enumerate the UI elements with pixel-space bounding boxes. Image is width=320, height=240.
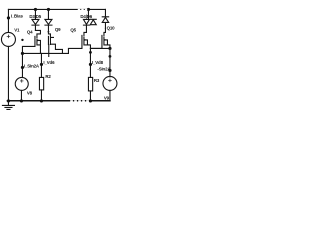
node dot bottom rail at V8 — [20, 99, 23, 102]
resistor R3 — [88, 77, 92, 91]
svg-text:D4|D6: D4|D6 — [80, 14, 92, 19]
wire V1 top branch — [7, 9, 9, 32]
svg-text:I_Vd8: I_Vd8 — [92, 60, 104, 65]
transistor Q4 — [22, 30, 40, 53]
diode D3 — [32, 9, 39, 30]
svg-text:-Sin2A: -Sin2A — [97, 66, 111, 71]
svg-text:V1: V1 — [14, 27, 20, 32]
node I_Vd6 dot — [40, 63, 43, 66]
svg-text:Q9: Q9 — [55, 27, 61, 32]
svg-text:R3: R3 — [94, 78, 100, 83]
transistor Q10 — [90, 28, 110, 48]
voltage source V9 — [103, 76, 117, 90]
wire fade bottom rail — [71, 100, 89, 102]
node I_Vd8 dot — [89, 63, 92, 66]
transistor Q5 — [68, 32, 90, 53]
node I_Bias dot — [7, 16, 10, 19]
wire top rail right corner — [104, 9, 106, 17]
wire R3 bottom — [89, 91, 91, 101]
node dot Q10 source — [108, 47, 111, 50]
svg-text:V8: V8 — [27, 90, 33, 95]
node dot mid-left junction — [21, 52, 24, 55]
node dot top rail D5 — [47, 8, 50, 11]
wire V8 bottom — [20, 90, 22, 100]
transistor Q9 — [48, 25, 62, 56]
diode D5 — [45, 9, 52, 25]
node -Sin2A dot — [108, 69, 111, 72]
svg-text:I_Vd6: I_Vd6 — [43, 60, 55, 65]
svg-text:I_Sin2A: I_Sin2A — [24, 63, 40, 68]
wire Q10 gate tie — [90, 47, 110, 49]
svg-text:D3|D5: D3|D5 — [29, 14, 41, 19]
svg-text:V9: V9 — [104, 95, 110, 100]
node dot top rail D4D6 — [87, 8, 90, 11]
voltage source V8 — [15, 77, 28, 90]
wire R2 bottom — [40, 90, 42, 101]
svg-text:Q5: Q5 — [70, 27, 76, 32]
wire V8 branch — [21, 53, 23, 77]
node dot bottom rail at V1 — [7, 99, 10, 102]
wire R2 branch — [40, 53, 42, 77]
wire V1 bottom — [7, 46, 9, 100]
wire V9 branch — [109, 48, 111, 77]
diode at Q10 branch — [102, 17, 108, 29]
node dot bottom rail at R2 — [40, 99, 43, 102]
resistor R2 — [39, 77, 43, 90]
node tick Q4 gate — [21, 39, 23, 41]
wire R3 branch — [89, 52, 91, 77]
svg-text:I_Bias: I_Bias — [11, 13, 24, 18]
wire top rail — [8, 8, 105, 10]
wire bottom rail — [7, 100, 110, 102]
voltage source V1 — [1, 32, 15, 46]
svg-text:R2: R2 — [45, 74, 51, 79]
wire V9 bottom — [109, 90, 111, 101]
wire mid left — [22, 52, 68, 54]
diode D4 — [83, 19, 89, 24]
svg-text:Q10: Q10 — [107, 25, 116, 30]
diode pair D4 D6 stem — [87, 9, 89, 19]
node dot top rail D3 — [34, 8, 37, 11]
diode D6 — [90, 19, 96, 24]
node dot mid V9 branch — [109, 55, 112, 58]
wire fade top rail — [78, 8, 87, 10]
node dot Q5 source junction — [89, 51, 92, 54]
svg-text:Q4: Q4 — [27, 29, 33, 34]
node dot bottom rail at R3 — [89, 99, 92, 102]
ground — [2, 101, 14, 110]
node I_Sin2A dot — [21, 66, 24, 69]
diode pair bar — [83, 25, 89, 32]
